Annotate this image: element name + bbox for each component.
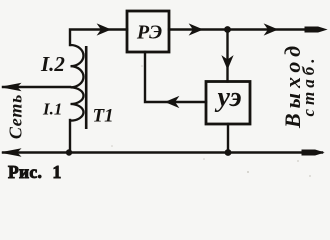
transformer T1 winding I.2 [71,45,84,87]
arrow right end of top rail [305,27,326,32]
box UE (control element) [206,82,250,125]
wire: UE bottom lead to bottom rail [227,124,229,153]
arrow left end of bottom rail [2,149,20,156]
wire: top rail from RE box to right output [169,28,322,30]
arrow left on feedback wire [166,97,178,107]
junction dot UE bottom [225,149,232,156]
svg-text:Т1: Т1 [93,106,114,127]
arrow toward output on top rail [265,25,277,35]
svg-text:уэ: уэ [214,82,241,113]
svg-text:Рис.: Рис. [8,162,42,182]
svg-text:I.1: I.1 [42,100,62,119]
svg-text:1: 1 [53,162,62,182]
svg-text:I.2: I.2 [40,52,65,76]
wire: vertical drop from top-rail junction to UE box [226,30,228,82]
box RE (regulating element) [127,11,169,52]
wire: transformer bottom lead [69,120,71,152]
wire: mains tap lead into transformer [3,86,70,88]
wire: feedback UE left to RE bottom [145,52,206,102]
arrow into RE on top rail [98,25,110,35]
arrow left end of mains tap [2,84,20,91]
transformer T1 winding I.1 [71,87,84,120]
arrow after RE on top rail [190,25,202,35]
svg-text:Сеть: Сеть [6,94,26,139]
wire: top rail from transformer corner to RE box [70,30,127,46]
wire: bottom rail [3,151,322,153]
svg-text:стаб.: стаб. [299,54,318,116]
transformer T1 core [85,46,88,129]
arrow right end of bottom rail [302,150,323,155]
junction dot top rail [224,26,231,33]
arrow down to UE [223,57,233,69]
junction dot transformer bottom [66,149,72,155]
svg-text:РЭ: РЭ [136,22,162,44]
